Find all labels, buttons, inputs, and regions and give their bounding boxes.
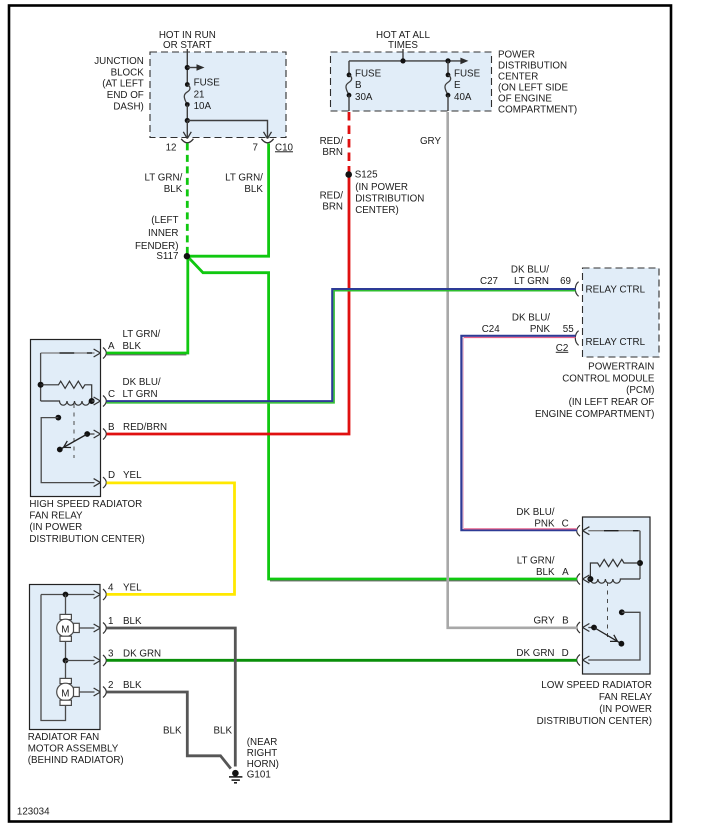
svg-text:RED/: RED/	[320, 191, 344, 202]
branch arrow right from feed node	[187, 67, 198, 69]
switch pivot dot	[57, 447, 63, 453]
svg-text:RED/BRN: RED/BRN	[123, 422, 167, 433]
resistor junction dot right	[637, 560, 643, 566]
pin 1 internal wire	[79, 627, 94, 629]
wire BLK motor pin 2 to ground	[107, 692, 231, 769]
coil junction dot left	[587, 576, 593, 582]
splice S117	[184, 253, 190, 259]
junction dot pin3	[63, 658, 69, 664]
motor 2 body	[57, 683, 75, 701]
relay resistor	[41, 381, 88, 388]
svg-text:FUSE: FUSE	[194, 78, 221, 89]
svg-text:LT GRN/: LT GRN/	[225, 172, 263, 183]
svg-text:S125: S125	[355, 170, 378, 181]
motor 1 top brush	[60, 614, 71, 619]
pin D connector arc	[103, 477, 106, 488]
svg-text:CONTROL MODULE: CONTROL MODULE	[562, 374, 655, 385]
motor 1 right tab	[74, 623, 80, 632]
relay pin A internal wire	[41, 352, 95, 354]
svg-text:FAN RELAY: FAN RELAY	[29, 511, 83, 522]
relay coil	[590, 579, 640, 583]
svg-text:LT GRN/: LT GRN/	[145, 172, 183, 183]
pin 2 internal wire	[79, 691, 94, 693]
svg-text:69: 69	[560, 276, 571, 287]
resistor left leg	[590, 563, 594, 579]
svg-text:POWERTRAIN: POWERTRAIN	[588, 362, 654, 373]
low speed radiator fan relay box	[583, 517, 651, 674]
switch arm	[594, 628, 621, 644]
relay pin D arrow	[583, 656, 590, 664]
relay actuator dashed link	[607, 582, 609, 637]
svg-text:M: M	[61, 689, 69, 700]
svg-text:FAN RELAY: FAN RELAY	[599, 692, 653, 703]
svg-text:E: E	[454, 80, 461, 91]
pin 69 connector arc	[575, 282, 578, 297]
svg-text:BLK: BLK	[213, 726, 232, 737]
svg-text:(IN POWER: (IN POWER	[355, 182, 408, 193]
svg-text:A: A	[562, 567, 569, 578]
svg-text:YEL: YEL	[123, 470, 142, 481]
wire LT GRN/BLK black tracer to low speed relay	[270, 580, 577, 582]
switch moving contact dot	[84, 431, 90, 437]
relay actuator dashed link	[73, 404, 75, 458]
svg-text:40A: 40A	[454, 92, 472, 103]
motor 1 stem bottom	[65, 641, 67, 661]
svg-text:BLK: BLK	[123, 616, 142, 627]
svg-text:B: B	[355, 80, 362, 91]
svg-text:LT GRN/: LT GRN/	[517, 556, 555, 567]
wire fuse to branch node	[186, 105, 188, 121]
svg-text:C: C	[108, 389, 115, 400]
pin D connector arc	[577, 655, 580, 666]
svg-text:2: 2	[108, 680, 113, 691]
svg-text:DK BLU/: DK BLU/	[516, 507, 554, 518]
svg-text:C24: C24	[482, 324, 501, 335]
pin 3 internal wire	[66, 660, 95, 662]
node at fuse E	[445, 58, 450, 63]
svg-text:END OF: END OF	[107, 90, 144, 101]
branch node	[185, 118, 190, 123]
svg-text:(PCM): (PCM)	[626, 385, 654, 396]
node at feed	[400, 58, 405, 63]
ground G101 symbol	[232, 770, 239, 777]
motor 1 body	[57, 619, 75, 637]
svg-text:BRN: BRN	[322, 147, 343, 158]
pin 12 connector arc	[181, 139, 193, 143]
svg-text:B: B	[108, 422, 115, 433]
svg-text:BLK: BLK	[536, 567, 555, 578]
svg-text:DK BLU/: DK BLU/	[123, 377, 161, 388]
svg-text:DISTRIBUTION: DISTRIBUTION	[355, 194, 424, 205]
svg-text:JUNCTION: JUNCTION	[94, 56, 144, 67]
svg-text:PNK: PNK	[534, 519, 555, 530]
G-TOPRIGHT	[320, 30, 578, 216]
svg-text:D: D	[562, 648, 569, 659]
svg-text:LOW SPEED RADIATOR: LOW SPEED RADIATOR	[541, 680, 652, 691]
relay resistor	[595, 559, 641, 566]
fuse E top terminal	[446, 73, 451, 78]
svg-text:BLK: BLK	[163, 726, 182, 737]
svg-text:FUSE: FUSE	[454, 68, 481, 79]
resistor right leg	[88, 385, 92, 401]
G-HSRELAY	[29, 329, 167, 545]
relay pin D arrow	[94, 479, 101, 487]
wire S117 branch to low speed relay pin A	[189, 258, 578, 580]
svg-text:B: B	[562, 616, 569, 627]
svg-text:RIGHT: RIGHT	[247, 748, 277, 759]
right vertical coil leg	[639, 531, 641, 579]
wire DK BLU/LT GRN light green tracer	[107, 291, 576, 403]
junction dot pin4/motor1	[63, 592, 69, 598]
switch fixed contact	[55, 415, 61, 421]
svg-text:DISTRIBUTION CENTER): DISTRIBUTION CENTER)	[29, 534, 144, 545]
wire YEL high speed relay pin D to motor pin 4	[107, 483, 235, 595]
svg-text:GRY: GRY	[420, 136, 442, 147]
G-LSRELAY	[516, 507, 652, 727]
wire DK GRN motor pin 3 to low speed relay pin D	[107, 659, 578, 662]
svg-text:(NEAR: (NEAR	[247, 737, 277, 748]
svg-text:GRY: GRY	[533, 616, 555, 627]
G-MOTOR	[28, 583, 161, 767]
wire BLK motor pin 1 to ground	[107, 628, 236, 767]
pin 7 connector arc	[261, 139, 273, 143]
svg-text:M: M	[61, 625, 69, 636]
svg-text:DISTRIBUTION CENTER): DISTRIBUTION CENTER)	[537, 716, 652, 727]
svg-text:OF ENGINE: OF ENGINE	[498, 94, 552, 105]
svg-text:HORN): HORN)	[247, 759, 279, 770]
wire fixed contact to pin D	[41, 418, 94, 483]
wire branch to pin 7	[187, 121, 267, 139]
pin 2 connector arc	[103, 687, 106, 698]
node on feed wire	[185, 65, 190, 70]
motor 2 stem top	[65, 661, 67, 679]
switch moving contact dot	[591, 625, 597, 631]
svg-text:(LEFT: (LEFT	[151, 215, 178, 226]
relay pin C internal wire	[92, 400, 95, 402]
svg-text:HIGH SPEED RADIATOR: HIGH SPEED RADIATOR	[29, 499, 142, 510]
svg-text:LT GRN/: LT GRN/	[123, 329, 161, 340]
wire fuse B to box edge	[348, 95, 350, 111]
wire fuse E to box edge	[447, 95, 449, 111]
splice S125	[345, 171, 352, 178]
relay pin B internal wire	[588, 627, 594, 629]
pin A connector arc	[577, 574, 580, 585]
svg-text:FUSE: FUSE	[355, 68, 382, 79]
svg-text:MOTOR ASSEMBLY: MOTOR ASSEMBLY	[28, 743, 119, 754]
bus wire across PDC	[349, 60, 462, 62]
high speed radiator fan relay box	[31, 340, 101, 497]
switch pivot dot	[619, 641, 625, 647]
wire RED/BRN S125 to high speed relay pin B	[107, 175, 350, 435]
svg-text:(IN POWER: (IN POWER	[29, 522, 82, 533]
fuse B bottom terminal	[347, 93, 352, 98]
svg-text:RADIATOR FAN: RADIATOR FAN	[28, 732, 100, 743]
svg-text:12: 12	[166, 142, 177, 153]
wire DK BLU/PNK PCM pin 55 to low speed relay pin C (dark blue)	[461, 336, 577, 530]
svg-text:21: 21	[194, 89, 205, 100]
motor 1 stem top	[65, 595, 67, 615]
svg-text:BLOCK: BLOCK	[111, 67, 145, 78]
bus arrow	[460, 58, 468, 65]
fuse E bottom terminal	[446, 93, 451, 98]
svg-text:4: 4	[108, 583, 114, 594]
svg-text:(IN LEFT REAR OF: (IN LEFT REAR OF	[569, 397, 655, 408]
pin 1 connector arc	[103, 623, 106, 634]
svg-text:(BEHIND RADIATOR): (BEHIND RADIATOR)	[28, 755, 124, 766]
motor 2 bottom brush	[60, 700, 71, 705]
wire LT GRN/BLK dashed from pin 12	[186, 143, 189, 253]
fuse 21 bottom terminal	[185, 102, 190, 107]
motor 2 right tab	[74, 687, 80, 696]
G-WIRES	[107, 112, 578, 783]
svg-text:DK BLU/: DK BLU/	[511, 264, 549, 275]
pin 4 connector arc	[103, 589, 106, 600]
junction block box	[150, 52, 286, 138]
svg-text:DK BLU/: DK BLU/	[512, 312, 550, 323]
svg-text:BLK: BLK	[244, 184, 263, 195]
svg-text:YEL: YEL	[123, 583, 142, 594]
G-TOPLEFT	[94, 30, 293, 153]
svg-text:POWER: POWER	[498, 50, 535, 61]
radiator fan motor assembly box	[30, 585, 101, 730]
svg-text:BLK: BLK	[164, 184, 183, 195]
svg-text:DASH): DASH)	[113, 101, 143, 112]
arrow into pin 7	[264, 132, 272, 139]
svg-text:RED/: RED/	[320, 136, 344, 147]
wire LT GRN/BLK from pin 7	[190, 143, 269, 256]
svg-text:55: 55	[563, 324, 574, 335]
wire bus to fuse E	[447, 61, 449, 75]
wire DK BLU/PNK pink tracer	[464, 337, 576, 339]
pin C connector arc	[577, 525, 580, 536]
svg-text:DISTRIBUTION: DISTRIBUTION	[498, 61, 567, 72]
svg-text:LT GRN: LT GRN	[123, 389, 158, 400]
wire from HOT feed down into junction block	[186, 49, 188, 85]
svg-text:D: D	[108, 470, 115, 481]
fuse 21 element	[184, 85, 190, 105]
fuse E element	[445, 75, 451, 95]
svg-text:A: A	[108, 341, 115, 352]
svg-text:RELAY CTRL: RELAY CTRL	[586, 284, 646, 295]
svg-text:(IN POWER: (IN POWER	[599, 704, 652, 715]
feed wire down from HOT AT ALL TIMES	[402, 49, 404, 61]
pin C connector arc	[103, 396, 106, 407]
relay pin A internal wire	[588, 578, 590, 580]
svg-text:C10: C10	[275, 142, 294, 153]
svg-text:BRN: BRN	[322, 202, 343, 213]
svg-text:C2: C2	[556, 343, 569, 354]
relay pin C internal wire	[588, 530, 640, 532]
fuse B element	[346, 75, 352, 95]
svg-text:(ON LEFT SIDE: (ON LEFT SIDE	[498, 83, 569, 94]
wire S117 down to relay pin A	[107, 256, 188, 353]
svg-text:PNK: PNK	[530, 324, 551, 335]
switch fixed contact	[619, 609, 625, 615]
pin B connector arc	[577, 622, 580, 633]
svg-text:10A: 10A	[194, 101, 212, 112]
fuse 21 top terminal	[185, 82, 190, 87]
motor 1 bottom brush	[60, 636, 71, 641]
svg-text:BLK: BLK	[123, 341, 142, 352]
svg-text:C: C	[562, 519, 569, 530]
svg-text:CENTER: CENTER	[498, 72, 538, 83]
svg-text:CENTER): CENTER)	[355, 205, 399, 216]
svg-text:123034: 123034	[17, 807, 50, 818]
svg-text:ENGINE COMPARTMENT): ENGINE COMPARTMENT)	[535, 409, 654, 420]
relay pin B internal wire	[87, 433, 94, 435]
switch arm	[60, 434, 87, 450]
pin 3 connector arc	[103, 655, 106, 666]
pin A connector arc	[103, 348, 106, 359]
relay coil left leg	[40, 353, 42, 401]
svg-text:DK GRN: DK GRN	[516, 648, 554, 659]
pin 4 internal wire	[41, 594, 95, 596]
svg-text:C27: C27	[480, 276, 498, 287]
wire bus to fuse B	[348, 61, 350, 75]
internal left return wire	[41, 595, 66, 721]
svg-text:INNER: INNER	[148, 228, 178, 239]
G-PCM	[480, 264, 659, 420]
svg-text:S117: S117	[156, 251, 178, 262]
wire LT GRN/BLK black tracer pin A	[107, 354, 187, 356]
relay coil	[41, 401, 92, 405]
svg-text:G101: G101	[247, 770, 271, 781]
power distribution center box	[331, 52, 492, 111]
wire fixed contact to pin D	[588, 612, 640, 660]
resistor junction dot left	[38, 382, 44, 388]
wire RED/BRN dashed fuse B to S125	[348, 112, 351, 172]
coil junction dot right	[89, 398, 95, 404]
svg-text:1: 1	[108, 616, 113, 627]
svg-text:COMPARTMENT): COMPARTMENT)	[498, 105, 577, 116]
svg-text:3: 3	[108, 649, 114, 660]
pin 55 connector arc	[575, 331, 578, 346]
svg-text:BLK: BLK	[123, 680, 142, 691]
svg-text:LT GRN: LT GRN	[514, 276, 549, 287]
powertrain control module box	[583, 268, 660, 357]
wire GRY fuse E to low speed relay pin B	[448, 112, 577, 628]
svg-text:RELAY CTRL: RELAY CTRL	[586, 337, 646, 348]
pin B connector arc	[103, 429, 106, 440]
fuse B top terminal	[347, 73, 352, 78]
motor 2 top brush	[60, 678, 71, 683]
svg-text:(AT LEFT: (AT LEFT	[102, 79, 144, 90]
arrow into pin 12	[186, 121, 188, 139]
wire DK BLU/LT GRN pin C to PCM pin 69 (dark blue)	[107, 289, 576, 401]
svg-text:DK GRN: DK GRN	[123, 649, 161, 660]
svg-text:7: 7	[253, 142, 258, 153]
svg-text:30A: 30A	[355, 92, 373, 103]
